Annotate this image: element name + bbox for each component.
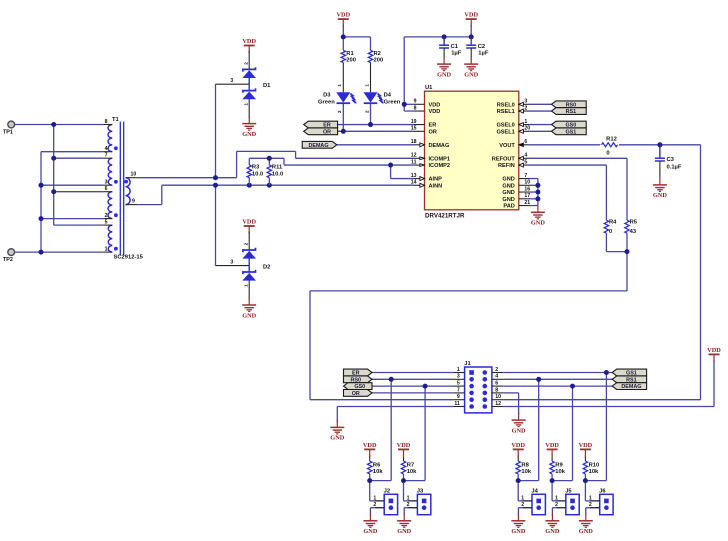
junction pull-up resistor bottom	[583, 478, 588, 483]
power symbol VDD (R8)	[511, 442, 525, 457]
svg-text:D1: D1	[263, 83, 271, 89]
pin 1 GSEL0 of U1	[496, 119, 529, 129]
svg-text:ICOMP1: ICOMP1	[429, 156, 450, 162]
svg-text:4: 4	[495, 374, 498, 380]
pin 12 ICOMP1 of U1	[411, 153, 450, 163]
svg-text:SC2912-15: SC2912-15	[114, 254, 144, 260]
svg-text:3: 3	[230, 78, 233, 84]
svg-text:D3: D3	[323, 93, 331, 99]
resistor R5 43	[625, 219, 638, 234]
svg-text:OR: OR	[429, 129, 437, 135]
svg-text:R5: R5	[630, 219, 638, 225]
wire pull-up resistor net	[518, 455, 539, 515]
svg-text:VDD: VDD	[511, 442, 525, 449]
svg-text:0: 0	[609, 229, 612, 235]
svg-text:GND: GND	[330, 435, 344, 442]
svg-text:13: 13	[411, 173, 417, 179]
svg-text:VDD: VDD	[464, 12, 478, 19]
test point TP2	[3, 249, 15, 263]
svg-text:1µF: 1µF	[451, 51, 462, 57]
svg-text:2: 2	[364, 110, 369, 113]
junction VDD net top	[341, 34, 474, 106]
power symbol VDD (J1 pin12)	[707, 347, 721, 362]
svg-text:DRV421RTJR: DRV421RTJR	[425, 212, 465, 219]
svg-text:1µF: 1µF	[478, 51, 489, 57]
pin 21 PAD of U1	[503, 200, 530, 210]
svg-text:10k: 10k	[555, 469, 565, 475]
resistor R6 10k	[368, 461, 384, 475]
svg-text:DEMAG: DEMAG	[429, 143, 450, 149]
svg-text:10k: 10k	[373, 469, 383, 475]
wire ER net at J1 pin1	[372, 372, 453, 374]
svg-text:2: 2	[243, 242, 249, 245]
wire REF divider to J1 pin9	[310, 233, 627, 400]
net tag RS0	[552, 101, 587, 109]
svg-text:6: 6	[524, 139, 527, 145]
svg-text:14: 14	[411, 180, 417, 186]
pin 15 OR of U1	[411, 126, 437, 136]
connector J1 2x6 header	[453, 361, 503, 413]
ground GND (J4)	[511, 514, 525, 535]
svg-text:20: 20	[524, 126, 530, 132]
svg-text:2: 2	[524, 105, 527, 111]
jumper J5 2-pin header	[555, 489, 579, 515]
svg-text:J3: J3	[417, 489, 424, 495]
svg-text:VDD: VDD	[363, 442, 377, 449]
svg-text:200: 200	[374, 57, 384, 63]
svg-text:R8: R8	[521, 462, 529, 468]
svg-text:18: 18	[411, 139, 417, 145]
junction U1 GND bus	[535, 183, 540, 202]
svg-text:J2: J2	[384, 489, 390, 495]
svg-text:1: 1	[521, 495, 524, 501]
wire VDD net top	[343, 25, 471, 111]
resistor R11 10.0	[267, 165, 283, 186]
svg-text:GSEL0: GSEL0	[496, 123, 514, 129]
svg-text:2: 2	[407, 502, 410, 508]
svg-text:DEMAG: DEMAG	[308, 143, 328, 149]
svg-text:R10: R10	[589, 462, 600, 468]
svg-text:1: 1	[524, 119, 527, 125]
capacitor C2 1uF	[466, 37, 489, 59]
resistor R12 0	[602, 137, 618, 157]
capacitor C3 0.1uF	[655, 145, 682, 180]
svg-text:R7: R7	[407, 462, 414, 468]
pin 7 GND of U1	[502, 173, 529, 183]
svg-text:REFIN: REFIN	[498, 163, 515, 169]
wire pull-up resistor net	[404, 455, 426, 515]
svg-text:J1: J1	[464, 361, 471, 367]
svg-text:3: 3	[105, 180, 108, 186]
svg-text:7: 7	[457, 387, 460, 393]
junction ER net	[368, 122, 373, 127]
junction OR net	[341, 129, 346, 134]
wire pull-up resistor net	[585, 455, 606, 515]
svg-text:7: 7	[105, 153, 108, 159]
wire TP1 primary net	[14, 125, 103, 226]
pin 4 REFOUT of U1	[492, 153, 529, 163]
junction REF divider	[625, 249, 630, 254]
svg-text:AINN: AINN	[429, 183, 443, 189]
svg-text:10: 10	[495, 394, 501, 400]
wire VDD at J1 pin12	[503, 360, 714, 407]
junction GS1/R10	[604, 370, 609, 375]
resistor R3 10.0	[247, 165, 263, 186]
resistor R7 10k	[401, 461, 417, 475]
svg-text:GSEL1: GSEL1	[496, 129, 514, 135]
svg-text:5: 5	[105, 220, 108, 226]
svg-text:8: 8	[105, 119, 108, 125]
wire GND at J1 pin8	[503, 393, 518, 415]
svg-text:ER: ER	[429, 123, 437, 129]
svg-text:T1: T1	[112, 117, 120, 123]
net tag OR (J1)	[344, 390, 373, 398]
junction ICOMP1/D1	[213, 175, 218, 180]
pin 16 GND of U1	[502, 186, 530, 196]
wire GSEL1 net	[529, 130, 552, 132]
svg-text:11: 11	[454, 401, 460, 407]
svg-text:12: 12	[411, 153, 417, 159]
ground GND (C1)	[437, 57, 451, 78]
svg-text:10: 10	[131, 172, 137, 178]
pin 19 ER of U1	[411, 119, 437, 129]
net tag RS1	[552, 108, 587, 116]
jumper J4 2-pin header	[521, 489, 545, 515]
svg-text:200: 200	[346, 57, 356, 63]
svg-text:GND: GND	[512, 427, 526, 434]
svg-text:9: 9	[414, 99, 417, 105]
pin 14 AINN of U1	[411, 180, 442, 190]
svg-text:3: 3	[524, 99, 527, 105]
wire GSEL0 net	[529, 124, 552, 126]
svg-text:RSEL1: RSEL1	[497, 109, 515, 115]
svg-text:1: 1	[555, 495, 558, 501]
ground GND (C3)	[653, 178, 667, 199]
junction TP2 net	[39, 183, 44, 255]
svg-text:R12: R12	[606, 137, 617, 143]
pin 8 VDD of U1	[414, 105, 441, 115]
svg-text:TP1: TP1	[3, 129, 13, 135]
svg-text:4: 4	[105, 146, 108, 152]
wire U1 GND bus	[529, 179, 538, 206]
wire TP2 primary net	[14, 152, 103, 252]
svg-text:VDD: VDD	[707, 347, 721, 354]
diode D1 (dual clamp)	[216, 51, 272, 118]
wire GS1 net at J1 pin2	[503, 373, 612, 481]
wire AINN net (T1 pin9, shunt bottom, D2, U1 pin14)	[137, 185, 414, 265]
wire RS0 net at J1 pin3	[372, 379, 453, 480]
wire ICOMP2 net (shunt top, U1 pin11, AINP tap)	[249, 158, 414, 178]
svg-text:D2: D2	[263, 265, 270, 271]
svg-text:C1: C1	[451, 44, 459, 50]
junction ICOMP2 net	[267, 156, 393, 168]
jumper J6 2-pin header	[589, 489, 613, 515]
svg-text:GND: GND	[363, 528, 377, 535]
svg-text:GND: GND	[502, 190, 514, 196]
svg-text:1: 1	[243, 284, 249, 287]
wire GND at J1 pin11	[337, 407, 453, 422]
svg-text:DEMAG: DEMAG	[621, 384, 641, 390]
pin 18 DEMAG of U1	[411, 139, 450, 149]
svg-text:2: 2	[105, 213, 108, 219]
svg-text:R11: R11	[272, 165, 283, 171]
svg-text:9: 9	[132, 198, 135, 204]
svg-text:GND: GND	[511, 528, 525, 535]
net tag DEMAG (J1)	[612, 383, 646, 391]
svg-text:J4: J4	[531, 489, 538, 495]
svg-text:16: 16	[524, 186, 530, 192]
wire RS1 net at J1 pin4	[503, 379, 612, 480]
svg-text:1: 1	[457, 367, 460, 373]
svg-text:VOUT: VOUT	[499, 143, 515, 149]
power symbol VDD (C1/C2)	[464, 12, 478, 27]
pin 10 GND of U1	[502, 180, 530, 190]
svg-text:R3: R3	[252, 165, 260, 171]
svg-text:6: 6	[495, 381, 498, 387]
svg-text:5: 5	[457, 381, 460, 387]
svg-text:1: 1	[105, 247, 108, 253]
resistor R1 200	[341, 50, 356, 63]
svg-text:12: 12	[495, 401, 501, 407]
svg-text:C3: C3	[667, 157, 675, 163]
svg-text:VDD: VDD	[397, 442, 411, 449]
power symbol VDD (R10)	[579, 442, 593, 457]
svg-text:GND: GND	[464, 71, 478, 78]
svg-text:21: 21	[524, 200, 530, 206]
svg-text:2: 2	[495, 367, 498, 373]
svg-text:TP2: TP2	[3, 257, 13, 263]
svg-text:6: 6	[105, 186, 108, 192]
ground GND (J1 pin8)	[512, 413, 526, 434]
svg-text:1: 1	[373, 495, 376, 501]
diode D2 (dual clamp)	[216, 232, 271, 300]
svg-text:VDD: VDD	[336, 12, 350, 19]
junction RS1/R8	[536, 377, 541, 382]
wire DEMAG net	[337, 144, 414, 146]
wire pull-up resistor net	[552, 455, 572, 515]
junction DEMAG/R9	[570, 384, 575, 389]
ground GND (D1)	[242, 117, 256, 138]
svg-text:C2: C2	[478, 44, 485, 50]
svg-text:19: 19	[411, 119, 417, 125]
svg-text:10k: 10k	[407, 469, 417, 475]
svg-text:R9: R9	[555, 462, 563, 468]
svg-text:PAD: PAD	[503, 204, 514, 210]
svg-text:2: 2	[521, 502, 524, 508]
svg-text:1: 1	[407, 495, 410, 501]
wire RSEL1 net	[529, 110, 552, 112]
wire pull-up resistor net	[370, 455, 392, 515]
junction pull-up resistor bottom	[367, 478, 372, 483]
resistor R8 10k	[516, 461, 532, 475]
pin 6 VOUT of U1	[499, 139, 529, 149]
svg-text:11: 11	[411, 159, 417, 165]
ground GND (U1)	[531, 205, 545, 226]
svg-text:2: 2	[373, 502, 376, 508]
net tag GS0 (J1)	[344, 383, 373, 391]
net tag GS1	[552, 128, 587, 135]
svg-text:GND: GND	[397, 528, 411, 535]
pin 9 VDD of U1	[414, 99, 441, 109]
svg-text:J6: J6	[599, 489, 606, 495]
svg-text:0: 0	[606, 150, 609, 156]
net tag OR	[304, 128, 338, 135]
ground GND (J6)	[579, 514, 593, 535]
svg-text:Green: Green	[318, 100, 335, 106]
wire REFIN net (to R4)	[529, 165, 606, 220]
svg-text:R1: R1	[346, 51, 354, 57]
power symbol VDD (D2)	[242, 218, 256, 233]
svg-text:3: 3	[230, 260, 233, 266]
junction VOUT/C3	[657, 142, 662, 147]
svg-text:15: 15	[411, 126, 417, 132]
svg-text:1: 1	[337, 84, 342, 87]
pin 13 AINP of U1	[411, 173, 442, 183]
ground GND (C2)	[464, 57, 478, 78]
svg-text:VDD: VDD	[545, 442, 559, 449]
wire ER net (D4 cathode to U1 pin19 and tag)	[338, 103, 414, 124]
svg-text:10k: 10k	[589, 469, 599, 475]
ground GND (J5)	[545, 514, 559, 535]
svg-text:43: 43	[630, 229, 637, 235]
svg-text:10: 10	[524, 180, 530, 186]
svg-text:Green: Green	[384, 100, 401, 106]
wire DEMAG net at J1 pin6	[503, 386, 612, 481]
ground GND (J2)	[363, 514, 377, 535]
svg-text:VDD: VDD	[579, 442, 593, 449]
pin 20 GSEL1 of U1	[496, 126, 530, 136]
junction pull-up resistor bottom	[516, 478, 521, 483]
ground GND (J1 pin11)	[330, 420, 344, 441]
svg-text:AINP: AINP	[429, 177, 443, 183]
svg-text:GND: GND	[242, 312, 256, 319]
LED D4 Green	[364, 63, 401, 114]
junction pull-up resistor bottom	[550, 478, 555, 483]
svg-text:D4: D4	[384, 93, 392, 99]
svg-text:RSEL0: RSEL0	[497, 102, 515, 108]
LED D3 Green	[318, 63, 356, 114]
svg-text:R6: R6	[373, 462, 381, 468]
svg-text:OR: OR	[323, 129, 331, 135]
wire OR net at J1 pin7	[372, 392, 453, 394]
pin 17 GND of U1	[502, 193, 530, 203]
svg-text:2: 2	[589, 502, 592, 508]
junction AINN net	[213, 183, 272, 188]
resistor R4 0	[604, 219, 617, 234]
svg-text:10.0: 10.0	[272, 171, 283, 177]
svg-text:J5: J5	[565, 489, 572, 495]
power symbol VDD (R7)	[397, 442, 411, 457]
svg-text:2: 2	[337, 110, 342, 113]
net tag ER (J1)	[344, 369, 373, 377]
svg-text:GND: GND	[531, 220, 545, 227]
svg-text:1: 1	[243, 103, 249, 106]
power symbol VDD (R6)	[363, 442, 377, 457]
svg-text:4: 4	[524, 153, 527, 159]
svg-text:3: 3	[457, 374, 460, 380]
IC U1 DRV421RTJR fluxgate current-sense	[425, 85, 519, 219]
wire OR net (D3 cathode to U1 pin15 and tag)	[338, 103, 414, 131]
svg-text:5: 5	[524, 159, 527, 165]
junction pull-up resistor bottom	[401, 478, 406, 483]
jumper J2 2-pin header	[373, 489, 397, 515]
svg-text:2: 2	[555, 502, 558, 508]
svg-text:1: 1	[589, 495, 592, 501]
power symbol VDD (D1)	[242, 38, 256, 53]
svg-text:GND: GND	[545, 528, 559, 535]
svg-text:GND: GND	[242, 131, 256, 138]
resistor R2 200	[368, 50, 383, 63]
junction RS0/R6	[389, 377, 394, 382]
svg-text:ICOMP2: ICOMP2	[429, 163, 450, 169]
net tag DEMAG	[302, 141, 337, 149]
net tag GS1 (J1)	[612, 369, 646, 377]
pin 2 RSEL1 of U1	[497, 105, 529, 115]
test point TP1	[3, 121, 15, 135]
svg-text:17: 17	[524, 193, 530, 199]
wire RSEL0 net	[529, 103, 552, 105]
net tag RS0 (J1)	[344, 376, 373, 384]
net tag RS1 (J1)	[612, 376, 646, 384]
svg-text:8: 8	[414, 105, 417, 111]
svg-text:GND: GND	[502, 183, 514, 189]
wire GS0 net at J1 pin5	[372, 386, 453, 481]
ground GND (J3)	[397, 514, 411, 535]
svg-text:R4: R4	[609, 219, 617, 225]
power symbol VDD (R1/R2)	[336, 12, 350, 27]
net tag ER	[304, 121, 338, 128]
net tag GS0	[552, 121, 587, 128]
junction TP1 net	[51, 122, 56, 194]
jumper J3 2-pin header	[407, 489, 431, 515]
svg-text:9: 9	[457, 394, 460, 400]
wire REFOUT net (to R5)	[529, 158, 627, 220]
svg-text:GND: GND	[653, 192, 667, 199]
svg-text:10k: 10k	[521, 469, 531, 475]
svg-text:7: 7	[524, 173, 527, 179]
svg-text:8: 8	[495, 387, 498, 393]
svg-text:GND: GND	[437, 71, 451, 78]
resistor R9 10k	[550, 461, 566, 475]
svg-text:GND: GND	[579, 528, 593, 535]
svg-text:GND: GND	[502, 197, 514, 203]
resistor R10 10k	[583, 461, 599, 475]
ground GND (D2)	[242, 298, 256, 319]
svg-text:VDD: VDD	[429, 109, 441, 115]
transformer T1 SC2912-15	[103, 117, 143, 260]
pin 5 REFIN of U1	[498, 159, 529, 169]
pin 3 RSEL0 of U1	[497, 99, 529, 109]
power symbol VDD (R9)	[545, 442, 559, 457]
svg-text:OR: OR	[352, 391, 360, 397]
wire ICOMP1 net (T1 pin10 to U1 pin12, clamped by D1)	[137, 84, 414, 178]
svg-text:10.0: 10.0	[252, 171, 263, 177]
capacitor C1 1uF	[439, 37, 462, 59]
svg-text:VDD: VDD	[242, 38, 256, 45]
svg-text:GS1: GS1	[565, 129, 576, 135]
svg-text:GND: GND	[502, 177, 514, 183]
svg-text:RS1: RS1	[566, 109, 577, 115]
svg-text:VDD: VDD	[429, 102, 441, 108]
svg-text:1: 1	[364, 84, 369, 87]
svg-text:R2: R2	[374, 51, 381, 57]
svg-text:0.1µF: 0.1µF	[667, 165, 682, 171]
svg-text:U1: U1	[425, 85, 433, 91]
svg-text:REFOUT: REFOUT	[492, 156, 516, 162]
junction GS0/R7	[423, 384, 428, 389]
svg-text:2: 2	[243, 62, 249, 65]
pin 11 ICOMP2 of U1	[411, 159, 450, 169]
